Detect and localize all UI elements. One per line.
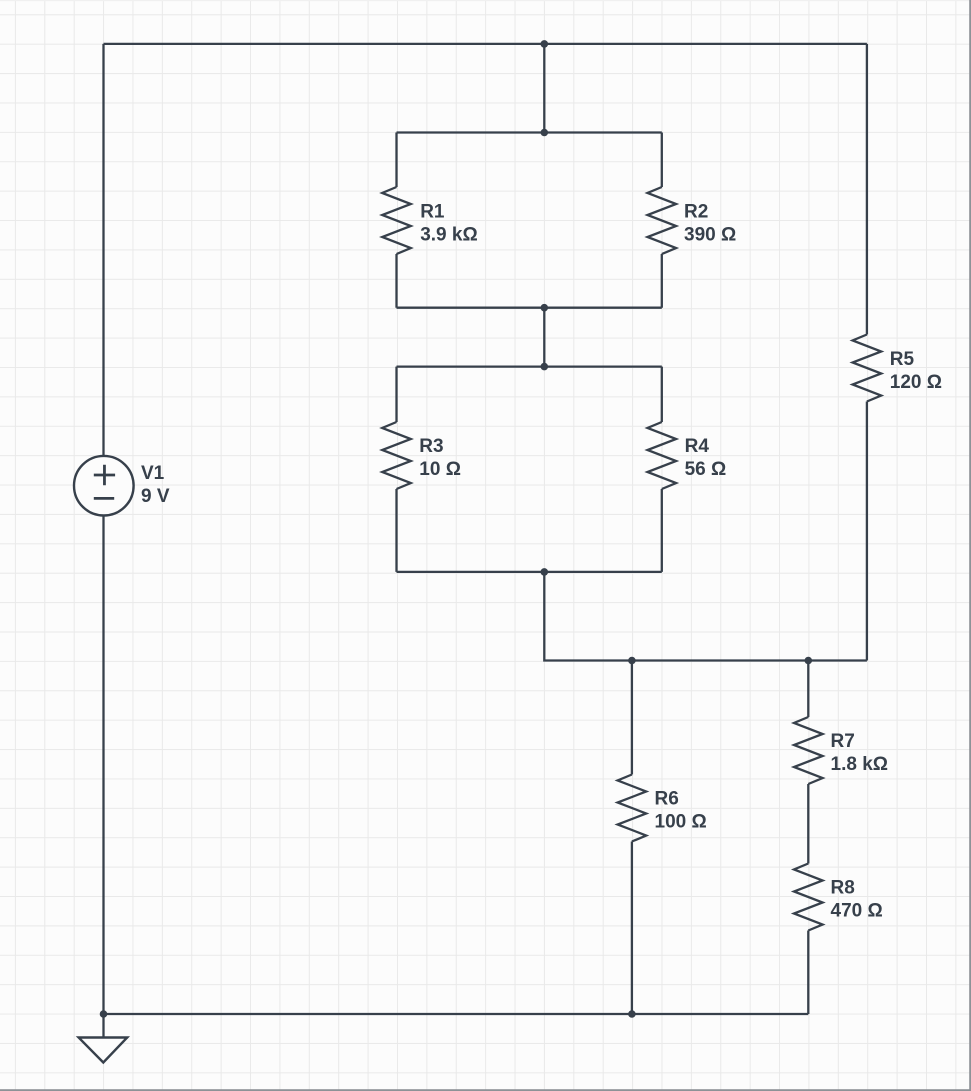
top edge faint line: [0, 0, 971, 1]
junction node top: [541, 40, 549, 48]
wire left vertical upper: [102, 44, 104, 456]
svg-text:R6: R6: [655, 788, 679, 809]
junction node box1 bottom: [541, 304, 549, 312]
junction node mid rail R6: [628, 657, 636, 665]
wire between boxes: [543, 308, 545, 367]
junction node box2 bottom: [541, 568, 549, 576]
wire box2 top: [397, 365, 662, 367]
junction node box2 top: [541, 363, 549, 371]
svg-text:470 Ω: 470 Ω: [831, 901, 883, 922]
wire bottom horizontal: [104, 1013, 809, 1015]
resistor R1: [382, 133, 411, 308]
junction node box1 top: [541, 129, 549, 137]
wire top horizontal: [104, 43, 867, 45]
resistor R6 with vertical wire: [618, 661, 647, 1015]
wire box2 bottom: [397, 571, 662, 573]
svg-text:R1: R1: [420, 201, 445, 222]
resistor R4: [648, 367, 677, 572]
svg-text:9 V: 9 V: [141, 486, 170, 507]
resistor R5 with right vertical wire: [853, 44, 882, 661]
wire left vertical lower: [102, 516, 104, 1015]
wire box2 bottom to mid rail: [544, 572, 867, 661]
svg-text:100 Ω: 100 Ω: [655, 811, 707, 832]
voltage source V1: [74, 456, 134, 516]
resistor R3: [382, 367, 411, 572]
svg-text:56 Ω: 56 Ω: [685, 459, 727, 480]
junction node mid rail R7: [805, 657, 813, 665]
right edge strip: [969, 0, 971, 1091]
junction node bottom left: [100, 1010, 108, 1018]
svg-text:R3: R3: [419, 436, 443, 457]
junction node bottom R6: [628, 1010, 636, 1018]
svg-text:3.9 kΩ: 3.9 kΩ: [420, 224, 478, 245]
resistor R8: [794, 864, 823, 1015]
wire top center drop: [543, 44, 545, 133]
resistor R7 top lead: [794, 661, 823, 864]
wire box1 top: [397, 131, 662, 133]
svg-text:10 Ω: 10 Ω: [419, 459, 461, 480]
svg-text:R4: R4: [685, 436, 710, 457]
svg-text:R7: R7: [831, 731, 855, 752]
resistor R2: [648, 133, 677, 308]
svg-text:120 Ω: 120 Ω: [890, 372, 942, 393]
svg-text:R5: R5: [890, 349, 915, 370]
wire box1 bottom: [397, 307, 662, 309]
svg-text:R2: R2: [684, 201, 708, 222]
svg-text:R8: R8: [831, 878, 855, 899]
bottom edge strip: [0, 1089, 971, 1091]
svg-text:1.8 kΩ: 1.8 kΩ: [831, 754, 889, 775]
svg-text:390 Ω: 390 Ω: [684, 224, 736, 245]
svg-text:V1: V1: [141, 463, 165, 484]
ground: [79, 1014, 128, 1063]
